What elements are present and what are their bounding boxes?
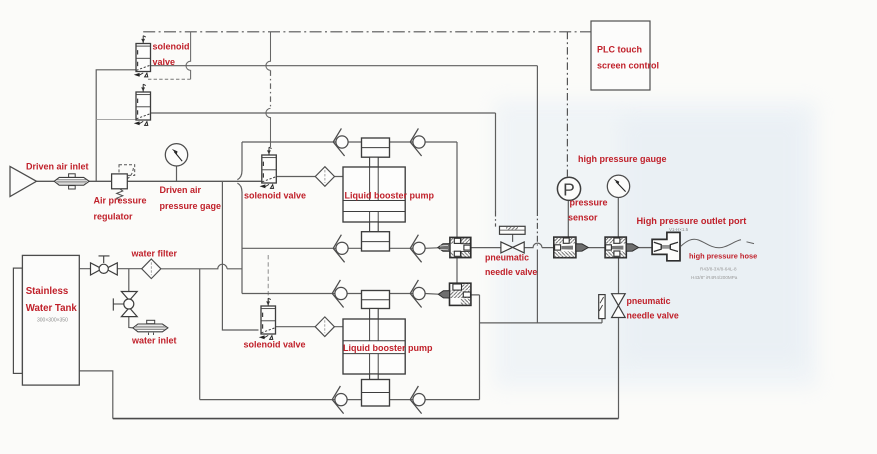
- wire: high pressure line FT1 to upper needle valve: [471, 247, 501, 249]
- lower liquid booster pump P2: [343, 291, 405, 407]
- wire: fitting FT1 to fitting FT4 connector: [456, 258, 458, 283]
- svg-text:Liquid booster pump: Liquid booster pump: [343, 343, 433, 353]
- svg-text:Stainless: Stainless: [26, 286, 69, 297]
- pneumatic needle valve NV1 (on HP line): [500, 226, 526, 253]
- wire: bottom return line: [113, 418, 619, 420]
- high pressure hose curve: [681, 239, 755, 248]
- label: Driven air pressure gage: [160, 185, 222, 211]
- svg-text:needle valve: needle valve: [627, 311, 679, 321]
- wire: water suction/discharge row 1 (upper pump top): [242, 141, 457, 143]
- svg-text:R43/8-3X/8-64L-8: R43/8-3X/8-64L-8: [700, 267, 737, 272]
- svg-text:300×300×350: 300×300×350: [37, 318, 68, 324]
- wire: control drop to pressure sensor (dash-dot): [566, 32, 568, 177]
- wire: inlet valve to water inlet muffler: [129, 316, 133, 328]
- upper liquid booster pump P1: [343, 138, 405, 251]
- wire: air riser to solenoid S4: [222, 181, 258, 330]
- svg-text:V1-H×1.5: V1-H×1.5: [669, 227, 689, 232]
- svg-text:pneumatic: pneumatic: [627, 296, 671, 306]
- svg-text:sensor: sensor: [568, 213, 598, 223]
- check valve CV3 (upper pump bottom suction): [333, 235, 348, 263]
- solenoid valve S3: [260, 147, 277, 188]
- pneumatic needle valve NV2 (relief to tank): [599, 294, 626, 319]
- wire: tank drain to return line: [79, 371, 113, 419]
- HP fitting FT1 (upper pump collector): [438, 237, 471, 257]
- wire: pilot line down to upper needle valve actuator: [495, 113, 497, 211]
- check valve CV2 (upper pump top discharge): [410, 128, 425, 156]
- solenoid valve S4: [259, 298, 276, 339]
- wire: PLC control bus (dash-dot, top): [143, 31, 591, 33]
- label: PLC touch screen control: [597, 45, 659, 71]
- PLC touch screen control box: [591, 21, 650, 90]
- label: high pressure gauge: [578, 154, 667, 164]
- svg-text:PLC touch: PLC touch: [597, 45, 642, 55]
- svg-text:Driven air inlet: Driven air inlet: [26, 162, 89, 172]
- stainless water tank T1: [13, 255, 79, 385]
- check valve CV5 (lower pump top suction): [332, 280, 347, 308]
- wire: relief branch to lower needle valve actuator: [480, 319, 603, 323]
- check valve CV7 (lower pump bottom suction): [332, 386, 347, 414]
- wire: gauge G1 stem: [176, 166, 178, 181]
- wire: solenoid S3 output through filter F1 to upper pump: [277, 176, 344, 178]
- wire: HP line sensor fitting to gauge fitting: [588, 247, 605, 249]
- HP fitting FT4 (lower pump collector): [438, 283, 471, 305]
- solenoid valve S2: [134, 84, 151, 125]
- svg-text:H43/8" iR4R4/200MPa: H43/8" iR4R4/200MPa: [691, 275, 738, 280]
- wire: solenoid S4 output through filter F2 to lower pump: [276, 326, 344, 328]
- label: pressure sensor: [568, 198, 608, 223]
- driven air inlet cone: [10, 167, 37, 197]
- wire: return riser from lower needle valve: [618, 318, 620, 419]
- wire: control drop to solenoid valve S2 with hop over S1 output: [186, 32, 191, 80]
- scan blue tint region right side: [494, 100, 818, 388]
- svg-text:Water Tank: Water Tank: [26, 303, 78, 314]
- air inlet muffler M1: [54, 174, 89, 189]
- svg-text:high pressure gauge: high pressure gauge: [578, 154, 667, 164]
- svg-text:needle valve: needle valve: [485, 267, 537, 277]
- wire: upper needle valve actuator stem: [512, 234, 514, 242]
- svg-text:pressure: pressure: [570, 198, 608, 208]
- wire: solenoid S2 output to pilot drop: [151, 112, 496, 114]
- solenoid valve S1: [134, 36, 151, 77]
- svg-text:valve: valve: [153, 57, 176, 67]
- ball valve BV1 (tank outlet): [91, 256, 118, 275]
- svg-text:pressure gage: pressure gage: [160, 201, 222, 211]
- check valve CV4 (upper pump bottom discharge): [410, 235, 425, 263]
- high pressure gauge G2: [607, 175, 629, 197]
- label: Stainless Water Tank: [26, 286, 78, 324]
- label: water inlet: [131, 336, 177, 346]
- wire: water branch down to lower pump bottom suction: [199, 269, 201, 400]
- wire: upper pump top discharge drop to fitting FT1: [456, 142, 458, 237]
- svg-text:solenoid valve: solenoid valve: [244, 340, 306, 350]
- check valve CV6 (lower pump top discharge): [410, 280, 425, 308]
- svg-text:P: P: [563, 179, 575, 199]
- label: Driven air inlet: [26, 162, 89, 172]
- wire: tank outlet to ball valve to water filter: [79, 268, 142, 270]
- air pressure regulator R1: [112, 165, 135, 200]
- HP fitting FT3 (gauge tee): [605, 237, 639, 258]
- wire: water row 4 (lower pump bottom): [200, 399, 480, 401]
- wire: pressure sensor stem: [567, 201, 569, 238]
- wire: air riser to solenoid S1: [96, 70, 136, 182]
- svg-text:high pressure hose: high pressure hose: [689, 251, 757, 260]
- label: pneumatic needle valve (NV1): [485, 253, 537, 277]
- label: High pressure outlet port: [637, 216, 747, 232]
- svg-text:Air pressure: Air pressure: [94, 196, 147, 206]
- svg-text:solenoid valve: solenoid valve: [244, 191, 306, 201]
- svg-text:Liquid booster pump: Liquid booster pump: [345, 191, 435, 201]
- label: solenoid valve (S4): [244, 340, 306, 350]
- wire: water filter to distribution vertical with hop over S4 riser: [161, 264, 242, 269]
- svg-text:water filter: water filter: [131, 249, 178, 259]
- label: pneumatic needle valve (NV2): [627, 296, 679, 321]
- wire: faint feed to solenoid S2: [96, 118, 136, 120]
- svg-text:screen control: screen control: [597, 61, 659, 71]
- wire: water inlet branch down to inlet valve: [128, 269, 130, 292]
- label: solenoid valve (S1/S2): [153, 42, 190, 68]
- wire: gauge fitting down to lower needle valve: [618, 258, 620, 294]
- check valve CV1 (upper pump top suction): [333, 128, 348, 156]
- water filter F3: [142, 259, 161, 279]
- svg-text:Driven air: Driven air: [160, 185, 202, 195]
- high pressure outlet port coupling: [652, 232, 680, 260]
- wire: solenoid S1 output to pilot drop: [151, 65, 538, 67]
- wire: pilot line down to lower needle valve (solid then dashed): [536, 66, 538, 210]
- svg-text:solenoid: solenoid: [153, 42, 190, 52]
- label: Liquid booster pump (P2): [343, 343, 433, 353]
- wire: main air line: [37, 180, 263, 182]
- svg-text:regulator: regulator: [94, 212, 134, 222]
- wire: lower pump discharge collector vertical: [471, 295, 480, 400]
- svg-text:pneumatic: pneumatic: [485, 253, 529, 263]
- svg-text:water inlet: water inlet: [131, 336, 177, 346]
- label: solenoid valve (S3): [244, 191, 306, 201]
- wire: HP line needle valve to sensor fitting with hop over pilot: [524, 243, 554, 248]
- driven air pressure gauge G1: [165, 144, 187, 166]
- wire: water row 3 (lower pump top): [242, 293, 439, 296]
- wire: water row 2 (upper pump bottom): [242, 247, 438, 250]
- wire: water distribution vertical (with break at main air line): [241, 142, 243, 294]
- pressure sensor PS1: [557, 177, 580, 200]
- svg-text:High pressure outlet port: High pressure outlet port: [637, 216, 747, 226]
- wire: control drop to solenoid valve S4 (dashed): [267, 255, 269, 301]
- HP fitting FT2 (pressure sensor tee): [554, 237, 589, 258]
- wire: HP gauge stem: [617, 198, 619, 238]
- wire: HP line gauge fitting to outlet port: [639, 247, 653, 249]
- water inlet muffler M2: [133, 320, 168, 335]
- air filter F2: [315, 317, 334, 337]
- air filter F1: [315, 167, 334, 187]
- label: Liquid booster pump (P1): [345, 191, 435, 201]
- water inlet valve BV2: [113, 292, 137, 317]
- label: Air pressure regulator: [94, 196, 147, 222]
- label: high pressure hose: [689, 251, 757, 280]
- check valve CV8 (lower pump bottom discharge): [410, 386, 425, 414]
- wire: control drop to solenoid valve S3 (dash-dot with hops): [266, 32, 271, 71]
- label: water filter: [131, 249, 178, 259]
